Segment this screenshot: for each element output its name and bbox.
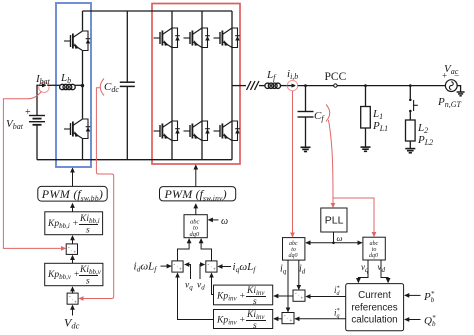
IGBT Q2 (boost bottom) xyxy=(64,119,90,139)
wire v_pcc to right dq0 xyxy=(333,198,374,236)
svg-text:+: + xyxy=(301,297,304,302)
wire v_q to current ref xyxy=(358,260,368,282)
summing junction S_bb,v xyxy=(67,293,78,304)
svg-text:s: s xyxy=(86,226,90,236)
IGBT Q3 xyxy=(154,28,180,48)
inverter leg A xyxy=(171,11,173,160)
inverter leg B xyxy=(201,11,203,160)
load L2 / P_L2 xyxy=(406,120,416,148)
switch S1 xyxy=(409,86,418,120)
wire P_b star xyxy=(405,294,421,296)
node C_f tap xyxy=(304,84,307,87)
block PI current Kp_bb,i xyxy=(45,212,103,235)
current sensor I_bat xyxy=(39,82,49,92)
svg-text:+: + xyxy=(179,268,182,273)
label Kp_bb,v block text xyxy=(47,265,102,287)
wire sum1 to Kpbbi xyxy=(72,236,74,244)
wire bottom DC rail xyxy=(37,159,232,161)
label Kp_bb,i block text xyxy=(47,214,100,236)
svg-text:+: + xyxy=(74,251,77,256)
wire V_dc feedback xyxy=(79,88,114,299)
wire inverter output xyxy=(232,85,246,87)
wire omega to right dq0 xyxy=(334,242,362,244)
svg-text:PCC: PCC xyxy=(325,71,347,83)
IGBT Q4 xyxy=(154,121,180,141)
wire i_q wL_f arrow xyxy=(218,266,231,268)
block PWM bb xyxy=(38,186,107,201)
wire top DC rail xyxy=(83,10,233,12)
power circuit labels xyxy=(6,63,462,147)
battery V_bat xyxy=(29,104,45,160)
ground (V_ac) xyxy=(457,92,465,96)
wire i_d wL_f arrow xyxy=(161,265,172,267)
IGBT Q8 xyxy=(214,121,240,141)
node L1 tap xyxy=(364,84,367,87)
three-phase marks xyxy=(247,81,260,90)
wire to filter inductor xyxy=(259,85,265,87)
wire Kpbbv to sum1 xyxy=(72,256,74,264)
current sensor i_ib xyxy=(287,80,297,90)
svg-text:+: + xyxy=(25,107,31,118)
svg-text:s: s xyxy=(253,321,257,331)
ground (L2) xyxy=(405,149,415,153)
wire omega from PLL xyxy=(333,232,335,243)
IGBT Q1 (boost top) xyxy=(64,31,90,51)
summing junction S_bb,i xyxy=(66,244,77,255)
inverter box (red) xyxy=(152,4,240,165)
block current references calculation xyxy=(346,284,404,331)
svg-text:+: + xyxy=(290,319,293,324)
block PI inv q xyxy=(214,285,273,305)
AC source V_ac xyxy=(445,80,460,92)
summing junction S_id xyxy=(293,290,305,301)
capacitor C_dc xyxy=(120,11,135,160)
label Kp_inv q block xyxy=(216,286,266,307)
node PCC xyxy=(334,84,337,87)
wire sum_id out to PIq xyxy=(274,295,293,297)
summing junction S_iq xyxy=(282,313,294,324)
inductor L_b xyxy=(60,84,76,89)
wire sumR to dq0 xyxy=(201,239,211,261)
block abc-dq0 (right measure) xyxy=(363,237,385,260)
wire PId out to sumL xyxy=(178,273,214,319)
block PI inv d xyxy=(214,310,273,329)
boost leg wire xyxy=(82,11,84,31)
inverter leg C xyxy=(231,11,233,160)
wire omega into dq0 xyxy=(209,219,219,221)
svg-text:+: + xyxy=(74,301,77,306)
wire sensor to grid xyxy=(298,85,446,87)
probe C_f xyxy=(326,105,330,122)
wire Q_b star xyxy=(405,319,421,321)
probe C_dc xyxy=(100,79,104,96)
wire V_dc to sum2 xyxy=(72,305,74,315)
wire i_q star xyxy=(295,318,346,320)
block abc-dq0 (inverter) xyxy=(184,215,207,238)
wire Kpbbi to PWMbb xyxy=(72,204,74,212)
wire battery to sensor xyxy=(37,85,39,104)
node omega tee xyxy=(332,242,335,245)
block abc-dq0 (left measure) xyxy=(283,238,305,261)
wire PWMbb to converter xyxy=(72,168,74,186)
svg-text:Currentreferencescalculation: Currentreferencescalculation xyxy=(351,290,397,326)
wire sumL to dq0 xyxy=(178,239,190,261)
wire sum_iq out to PId xyxy=(274,318,282,320)
svg-text:+: + xyxy=(213,268,216,273)
wire v_d into sumR xyxy=(200,265,204,280)
wire i_d from dq0 xyxy=(298,260,300,289)
IGBT Q7 xyxy=(214,28,240,48)
summing junction marks xyxy=(68,246,304,325)
wire v_pcc feedback xyxy=(329,120,334,207)
svg-text:Q*b: Q*b xyxy=(424,314,436,328)
wire inductor to boost leg xyxy=(75,84,83,86)
inductor L_f xyxy=(265,83,281,88)
block PI voltage Kp_bb,v xyxy=(45,263,103,285)
wire i_ib feedback xyxy=(292,91,294,237)
summing junction S_q xyxy=(206,261,217,272)
wire sum2 to Kpbbv xyxy=(72,287,74,293)
wire dq0 to PWMinv xyxy=(195,204,197,215)
capacitor C_f xyxy=(298,86,314,147)
block PLL xyxy=(321,208,347,232)
wire v_d to current ref xyxy=(381,260,388,282)
wire PWMinv to inverter xyxy=(195,165,197,186)
wire i_q from dq0 xyxy=(287,260,289,312)
wire omega to left dq0 xyxy=(306,242,333,244)
load L1 / P_L1 xyxy=(361,86,371,147)
svg-text:PLL: PLL xyxy=(325,215,344,227)
svg-text:s: s xyxy=(253,297,257,307)
wire I_bat feedback xyxy=(3,91,65,248)
boost converter box (blue) xyxy=(56,3,91,167)
summing junction S_d xyxy=(172,261,183,272)
label Kp_inv d block xyxy=(216,310,266,331)
IGBT Q6 xyxy=(184,121,210,141)
IGBT Q5 xyxy=(184,28,210,48)
node L2 tap xyxy=(409,84,412,87)
ground (L1) xyxy=(361,147,371,151)
svg-text:s: s xyxy=(86,277,90,287)
ground (C_f) xyxy=(301,147,311,151)
block PWM inv xyxy=(160,187,236,201)
wire inductor to sensor xyxy=(281,85,288,87)
wire PIq out to sumR xyxy=(212,273,214,294)
wire sensor to inductor xyxy=(47,84,60,86)
wire i_d star xyxy=(306,296,346,298)
svg-text:P*b: P*b xyxy=(423,290,435,304)
node boost midpoint xyxy=(81,84,84,87)
svg-text:ω: ω xyxy=(337,233,343,243)
wire v_q into sumL xyxy=(185,265,191,280)
svg-text:ω: ω xyxy=(221,216,228,227)
